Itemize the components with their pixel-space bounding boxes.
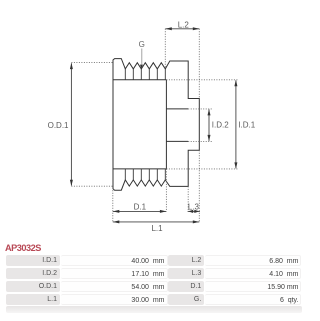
footer band (next section, cut off) — [6, 306, 302, 313]
svg-text:O.D.1: O.D.1 — [48, 121, 69, 130]
dimension L.1 — [113, 150, 200, 233]
groove root lines top — [125, 69, 165, 80]
groove root lines bottom — [125, 169, 165, 180]
spec table row 4 — [0, 294, 307, 306]
dimension I.D.2 — [188, 109, 229, 141]
svg-text:D.1: D.1 — [134, 202, 147, 211]
dimension O.D.1 — [48, 63, 113, 187]
svg-text:L.1: L.1 — [151, 224, 163, 233]
spec table row 2 — [0, 268, 307, 280]
svg-text:I.D.1: I.D.1 — [238, 120, 255, 129]
svg-text:L.3: L.3 — [188, 202, 200, 211]
pulley outer profile — [113, 59, 199, 191]
dimension I.D.1 — [166, 80, 255, 169]
bore lines I.D.2 — [166, 109, 188, 141]
svg-text:L.2: L.2 — [178, 21, 190, 30]
dimension L.2 — [165, 21, 199, 99]
svg-text:I.D.2: I.D.2 — [212, 120, 229, 129]
dimension L.3 — [188, 186, 200, 213]
spec table row 3 — [0, 281, 307, 293]
technical drawing of pulley — [0, 0, 307, 240]
spec table row 1 — [0, 255, 307, 267]
flange front edge — [165, 80, 167, 169]
dimension D.1 — [113, 169, 167, 222]
groove band inner lines — [113, 80, 166, 169]
part number AP3032S — [5, 243, 41, 253]
label G with leader — [139, 40, 145, 69]
svg-text:G: G — [139, 40, 145, 49]
